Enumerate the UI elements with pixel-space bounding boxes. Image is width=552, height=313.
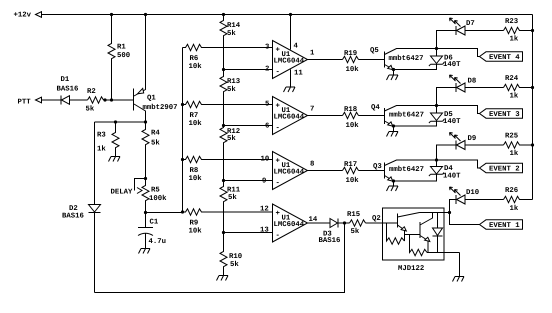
diode D1 BAS16 [57, 76, 79, 105]
svg-text:7: 7 [310, 106, 314, 114]
svg-text:R24: R24 [505, 75, 519, 83]
wire ramp node to comparator input column [146, 212, 183, 214]
transistor Q3 mmbt6427 [373, 160, 480, 186]
wire U1b output [308, 115, 343, 117]
capacitor C1 4.7u [138, 213, 166, 249]
resistor R7 [183, 101, 273, 128]
svg-text:1k: 1k [510, 204, 519, 213]
junction D3 R15 feedback [343, 221, 346, 224]
svg-text:10k: 10k [189, 119, 203, 128]
zener D4 140T [394, 160, 462, 181]
diode Q2 internal body diode [433, 213, 443, 253]
svg-text:R25: R25 [505, 133, 518, 141]
svg-text:6: 6 [265, 123, 269, 131]
wire Q2 collector to EVENT 1 [450, 213, 480, 225]
svg-text:D9: D9 [468, 135, 477, 143]
pin 11 power wire U1 [291, 70, 304, 88]
svg-text:2: 2 [265, 66, 269, 74]
svg-text:3: 3 [265, 44, 270, 52]
svg-text:5k: 5k [151, 139, 160, 148]
wire Q2 internal Ra to emitter node [404, 235, 406, 242]
svg-text:5k: 5k [227, 134, 236, 143]
svg-text:-: - [276, 69, 280, 77]
pin 4 power wire U1 [291, 15, 299, 51]
wire Q2 top collector wire [420, 212, 450, 214]
svg-text:R2: R2 [87, 88, 96, 96]
junction divider tap pin13 [222, 231, 225, 234]
svg-text:LMC6044: LMC6044 [274, 114, 305, 122]
svg-text:1k: 1k [510, 35, 519, 44]
flag EVENT 3 [480, 109, 523, 119]
junction Q1 collector / R4 [144, 120, 147, 123]
svg-text:-: - [276, 125, 280, 133]
junction Q3 emitter [392, 179, 395, 182]
svg-text:R8: R8 [190, 167, 199, 175]
wire U1c output [308, 170, 343, 172]
wire tap to pin13 [224, 232, 273, 234]
svg-text:+: + [276, 47, 281, 55]
resistor R4 [142, 122, 160, 179]
ground Q3 [387, 186, 399, 191]
transistor Q2 MJD122 box [372, 208, 444, 273]
svg-text:R7: R7 [190, 112, 199, 120]
svg-text:D1: D1 [61, 76, 70, 84]
resistor R10 [220, 233, 242, 276]
wire tap to pin9 [224, 180, 273, 182]
resistor R15 [347, 211, 366, 236]
svg-text:140T: 140T [443, 173, 461, 181]
svg-text:R13: R13 [227, 78, 241, 86]
svg-text:5k: 5k [351, 227, 360, 236]
transistor Q2 internal T1 [383, 213, 421, 235]
svg-text:4: 4 [294, 43, 299, 51]
svg-text:12: 12 [260, 206, 269, 214]
junction R5 wiper [144, 177, 147, 180]
svg-text:LMC6044: LMC6044 [274, 221, 305, 229]
junction Q5 collector node [435, 47, 438, 50]
svg-text:11: 11 [294, 70, 303, 78]
svg-text:Q2: Q2 [372, 215, 381, 223]
svg-text:D8: D8 [468, 78, 477, 86]
op-amp U1d [260, 204, 318, 242]
junction right rail R23 [531, 29, 534, 32]
resistor R1 [108, 15, 130, 101]
LED D10 [450, 187, 504, 213]
resistor R13 [220, 70, 241, 126]
junction input column R7 [181, 103, 184, 106]
wire bottom feedback rail [95, 223, 345, 293]
transistor Q2 internal T2 [420, 213, 433, 253]
wire R19 to Q5 [359, 59, 385, 61]
transistor Q5 mmbt6427 [370, 47, 480, 75]
svg-text:5k: 5k [86, 105, 95, 114]
wire PTT to D1 [42, 99, 62, 101]
junction Q3 collector node [435, 158, 438, 161]
diode D3 BAS16 [319, 219, 341, 246]
junction divider tap pin9 [222, 179, 225, 182]
junction right rail R25 [531, 143, 534, 146]
potentiometer R5 100k (DELAY) [135, 179, 168, 213]
transistor Q1 mmbt2907 [134, 15, 178, 123]
svg-text:1k: 1k [510, 92, 519, 101]
junction ramp node C1 [144, 211, 147, 214]
flag EVENT 4 [480, 52, 523, 62]
resistor R12 [220, 126, 240, 181]
junction top rail at R14 [222, 13, 225, 16]
junction right rail R24 [531, 86, 534, 89]
LED D7 [437, 18, 504, 49]
wire R3 row [95, 121, 146, 123]
ground R3 [109, 157, 121, 162]
svg-text:500: 500 [117, 52, 130, 60]
port arrow +12v [36, 12, 42, 18]
svg-text:C1: C1 [150, 219, 159, 227]
ground C1 [139, 249, 151, 254]
wire comparator input column [182, 48, 184, 213]
wire R18 to Q4 [359, 115, 385, 117]
wire D1 to R2 [70, 99, 88, 101]
wire R15 to Q2 [366, 222, 383, 224]
junction Q4 collector node [435, 104, 438, 107]
svg-text:R4: R4 [151, 130, 160, 138]
resistor R23 [504, 18, 533, 44]
wire U1a output [308, 59, 343, 61]
wire R17 to Q3 [359, 170, 385, 172]
svg-text:Q4: Q4 [371, 104, 380, 112]
wire tap to pin6 [224, 125, 273, 127]
resistor R2 [86, 88, 104, 114]
svg-text:MJD122: MJD122 [398, 265, 424, 273]
junction top rail at Q1 emitter column [144, 13, 147, 16]
port arrow PTT [36, 97, 42, 103]
svg-text:1k: 1k [97, 145, 106, 154]
resistor R3 [97, 122, 119, 157]
ground Q4 [387, 132, 399, 137]
svg-text:D10: D10 [466, 189, 479, 197]
svg-text:+: + [276, 210, 281, 218]
svg-text:Q1: Q1 [147, 95, 156, 103]
svg-text:10k: 10k [346, 176, 360, 185]
svg-text:4.7u: 4.7u [149, 238, 167, 246]
svg-text:10k: 10k [346, 121, 360, 130]
junction base node a [103, 98, 106, 101]
svg-text:1: 1 [310, 50, 315, 58]
svg-text:10k: 10k [346, 65, 360, 74]
svg-text:5k: 5k [228, 193, 237, 202]
resistor R24 [504, 75, 533, 101]
flag EVENT 2 [480, 163, 523, 173]
svg-text:LMC6044: LMC6044 [274, 169, 305, 177]
junction input column R8 [181, 158, 184, 161]
svg-text:EVENT 2: EVENT 2 [489, 166, 520, 174]
junction divider tap pin2 [222, 68, 225, 71]
op-amp U1c [261, 152, 315, 190]
wire Q2 bottom emitter wire [427, 253, 460, 277]
transistor Q4 mmbt6427 [371, 104, 480, 132]
resistor R8 [183, 156, 273, 183]
svg-text:R6: R6 [190, 55, 199, 63]
svg-text:10k: 10k [189, 174, 203, 183]
svg-text:BAS16: BAS16 [57, 86, 79, 94]
svg-text:+12v: +12v [14, 12, 32, 20]
LED D9 [437, 133, 504, 161]
op-amp U1b [265, 97, 314, 135]
svg-text:Q3: Q3 [373, 163, 382, 171]
svg-text:LMC6044: LMC6044 [274, 58, 305, 66]
op-amp U1a [265, 41, 315, 79]
svg-text:5k: 5k [227, 29, 236, 38]
svg-text:5k: 5k [227, 85, 236, 94]
svg-text:100k: 100k [149, 194, 167, 203]
wire +12V top rail [42, 14, 533, 16]
junction Q2 collector node [448, 211, 451, 214]
ground R10 [217, 276, 229, 281]
svg-text:R14: R14 [227, 22, 241, 30]
svg-text:5k: 5k [230, 260, 239, 269]
svg-text:mmbt2907: mmbt2907 [143, 103, 178, 112]
svg-text:R23: R23 [505, 18, 519, 26]
svg-text:+: + [276, 103, 281, 111]
LED D8 [437, 75, 504, 106]
svg-text:D7: D7 [466, 20, 475, 28]
svg-text:mmbt6427: mmbt6427 [389, 54, 424, 63]
resistor Q2 internal Rb [410, 235, 428, 256]
resistor R11 [220, 181, 241, 233]
resistor R9 [183, 209, 273, 236]
svg-text:10k: 10k [189, 227, 203, 236]
svg-text:R1: R1 [117, 44, 126, 52]
flag EVENT 1 [480, 220, 523, 230]
ground Q5 [387, 75, 399, 80]
svg-text:13: 13 [260, 227, 269, 235]
svg-text:R3: R3 [97, 132, 106, 140]
zener D6 140T [394, 49, 462, 70]
resistor R18 [343, 106, 360, 130]
svg-text:R9: R9 [190, 220, 199, 228]
wire R2 to Q1 base [104, 99, 134, 101]
svg-text:10: 10 [261, 156, 270, 164]
svg-text:R18: R18 [344, 106, 357, 114]
junction input column R9 [181, 210, 184, 213]
svg-text:R10: R10 [229, 253, 242, 261]
svg-text:R19: R19 [344, 50, 357, 58]
resistor R6 [183, 44, 273, 71]
svg-text:R17: R17 [344, 161, 357, 169]
resistor R19 [343, 50, 360, 74]
junction top rail at U1 pin4 [289, 13, 292, 16]
junction base node R1 [110, 98, 113, 101]
resistor R17 [343, 161, 360, 185]
wire U1d output [308, 222, 331, 224]
svg-text:9: 9 [262, 178, 266, 186]
svg-text:R15: R15 [347, 211, 360, 219]
svg-text:140T: 140T [443, 61, 461, 69]
svg-text:1k: 1k [510, 149, 519, 158]
svg-text:-: - [276, 180, 280, 188]
resistor Q2 internal Ra [387, 223, 405, 244]
svg-text:R5: R5 [151, 187, 160, 195]
junction top rail at R1 [110, 13, 113, 16]
wire right rail [532, 15, 534, 200]
svg-text:EVENT 4: EVENT 4 [489, 54, 520, 62]
svg-text:mmbt6427: mmbt6427 [389, 165, 424, 174]
svg-text:PTT: PTT [18, 99, 32, 107]
zener D5 140T [394, 106, 462, 127]
svg-text:BAS16: BAS16 [319, 237, 341, 245]
svg-text:DELAY: DELAY [111, 189, 134, 197]
svg-text:-: - [276, 232, 280, 240]
wire tap to pin2 [224, 69, 273, 71]
junction divider tap pin6 [222, 124, 225, 127]
svg-text:+: + [276, 158, 281, 166]
svg-text:R26: R26 [505, 187, 518, 195]
svg-text:mmbt6427: mmbt6427 [389, 111, 424, 120]
svg-text:EVENT 3: EVENT 3 [489, 111, 520, 119]
svg-text:BAS16: BAS16 [62, 213, 84, 221]
ground Q2 [453, 277, 465, 282]
svg-text:5: 5 [265, 101, 269, 109]
divider chain: resistor R14 [220, 15, 241, 70]
resistor R26 [504, 187, 533, 213]
ground U1 pin11 [284, 87, 296, 92]
resistor R25 [504, 133, 533, 159]
svg-text:8: 8 [310, 161, 314, 169]
diode D2 BAS16 [62, 122, 101, 293]
junction R3 top [114, 120, 117, 123]
svg-text:10k: 10k [189, 62, 203, 71]
svg-text:Q5: Q5 [370, 47, 379, 55]
svg-text:EVENT 1: EVENT 1 [489, 222, 520, 230]
wire D3 to R15 [338, 222, 350, 224]
svg-text:140T: 140T [443, 118, 461, 126]
